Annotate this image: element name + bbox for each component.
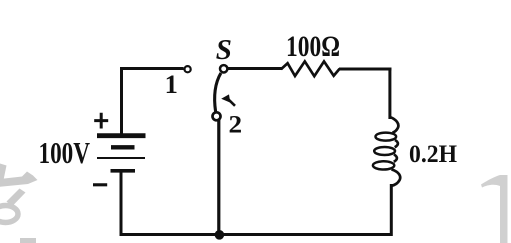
inductor L top hook: [390, 117, 398, 133]
watermark numeral bottom-right: [481, 175, 508, 243]
svg-text:100V: 100V: [39, 135, 91, 170]
inductor L loop 3: [373, 161, 394, 169]
inductor L spine bump 2: [394, 155, 397, 162]
wire: left vertical upper (battery + to top wire): [120, 67, 123, 134]
switch throw arrow tail: [229, 100, 235, 106]
svg-text:1: 1: [165, 69, 178, 99]
wire: bottom horizontal: [120, 233, 392, 236]
svg-text:0.2H: 0.2H: [409, 141, 458, 168]
junction dot at bottom wire: [215, 230, 225, 240]
switch S top circle: [220, 65, 227, 72]
label - (battery negative): [93, 183, 107, 186]
wire: top horizontal from resistor to right corner: [339, 68, 391, 71]
watermark stroke bottom-left small diagonal top: [0, 164, 7, 181]
inductor L loop 2: [374, 147, 395, 155]
resistor R (zigzag): [281, 61, 340, 76]
switch throw arrow head: [221, 94, 230, 102]
battery B1 plate 2 (short thick): [111, 145, 135, 149]
switch position-2 circle: [213, 112, 221, 120]
wire: left vertical lower (battery - to bottom wire): [120, 171, 123, 236]
battery B1 plate 4 (short thick, -): [111, 169, 136, 173]
label + (battery positive): [94, 113, 108, 129]
watermark stroke bottom-left horizontal: [0, 172, 38, 187]
watermark bar bottom edge: [20, 238, 36, 243]
battery B1 plate 3 (long thin): [97, 157, 145, 159]
wire: right vertical upper: [388, 68, 391, 120]
wire: top horizontal from switch to resistor: [227, 67, 282, 70]
wire: top-left horizontal from battery to terminal 1: [120, 67, 184, 70]
terminal 1 circle: [185, 66, 191, 72]
watermark hook bottom-left: [0, 206, 18, 223]
switch blade: [215, 73, 221, 112]
svg-text:2: 2: [229, 112, 243, 139]
svg-text:100Ω: 100Ω: [286, 31, 340, 63]
svg-text:S: S: [216, 34, 232, 66]
battery B1 plate 1 (long thick, +): [97, 133, 146, 138]
wire: switch position-2 vertical drop: [217, 120, 220, 235]
inductor L bottom hook: [392, 170, 401, 186]
inductor L spine bump 1: [395, 140, 398, 147]
inductor L loop 1: [376, 133, 397, 141]
wire: right vertical lower: [390, 184, 393, 236]
watermark stroke bottom-left diagonal: [7, 189, 26, 207]
